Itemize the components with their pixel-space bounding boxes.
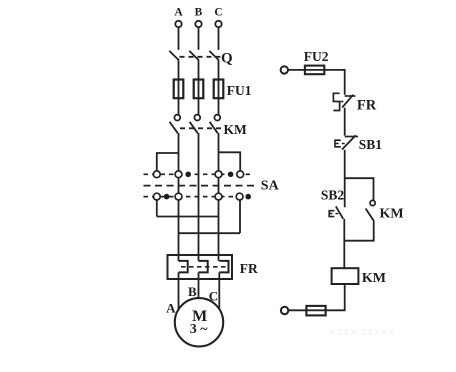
svg-text:xxxx: xxxx	[329, 324, 357, 338]
KM aux contact blade	[366, 209, 374, 222]
contactor KM pole 1 fixed contact	[174, 115, 180, 121]
svg-text:FR: FR	[240, 261, 258, 276]
wire phase B top	[198, 27, 200, 50]
control terminal bottom	[281, 307, 288, 314]
svg-text:FR: FR	[357, 98, 377, 114]
wire phase C mid	[218, 60, 220, 114]
svg-text:B: B	[188, 284, 197, 299]
wire SA out C to FR	[218, 200, 220, 261]
contactor KM pole 1 blade	[170, 122, 178, 133]
contactor KM pole 2 blade	[190, 122, 198, 133]
switch SA contact top 1	[153, 171, 160, 178]
FR contact thermal glyph	[333, 93, 339, 110]
button SB1 blade	[342, 135, 356, 149]
coil KM box	[332, 268, 359, 284]
switch SA pole link A	[178, 174, 180, 196]
thermal relay FR linkage	[181, 266, 228, 268]
svg-text:C: C	[209, 289, 218, 304]
wire FR to SB1	[344, 108, 346, 136]
wire phase B mid	[198, 60, 200, 114]
svg-text:FU2: FU2	[304, 49, 329, 64]
contactor KM pole 3 fixed contact	[214, 115, 220, 121]
switch SA dot top 2	[228, 172, 234, 178]
contactor KM linkage	[180, 127, 222, 129]
fuse FU1 pole 2	[194, 80, 204, 99]
switch SA contact bottom 3	[215, 193, 222, 200]
contactor KM pole 2 fixed contact	[194, 115, 200, 121]
switch SA dot bottom 2	[245, 194, 251, 200]
wire phase C top	[218, 27, 220, 50]
wire crossover H2	[179, 232, 241, 234]
motor M circle	[175, 298, 223, 346]
switch Q pole 3 blade	[209, 51, 219, 61]
button SB2 link dash	[335, 213, 338, 215]
FR contact blade	[342, 95, 353, 108]
svg-text:SA: SA	[261, 179, 280, 194]
button SB1 link dash	[342, 143, 345, 145]
thermal relay FR heater 3	[219, 261, 228, 273]
svg-text:C: C	[214, 6, 222, 18]
thermal relay FR heater 2	[199, 261, 208, 273]
button SB1 fixed tick	[345, 136, 358, 138]
switch SA contact top 3	[215, 171, 222, 178]
svg-text:Q: Q	[221, 50, 233, 66]
switch SA dot top 1	[185, 172, 191, 178]
switch SA contact bottom 1	[153, 193, 160, 200]
wire branch top	[345, 178, 374, 200]
FR contact link dash	[341, 101, 344, 103]
wire SA out A to FR	[178, 200, 180, 261]
wire FR to motor C	[218, 272, 220, 310]
wire SA right jog	[219, 152, 241, 171]
switch SA contact bottom 2	[175, 193, 182, 200]
thermal relay FR heater 1	[179, 261, 188, 273]
fuse bottom	[306, 306, 325, 316]
svg-text:SB2: SB2	[321, 188, 345, 203]
fuse FU1 pole 3	[214, 80, 224, 99]
terminal A	[175, 21, 181, 27]
svg-text:A: A	[166, 301, 176, 316]
thermal relay FR box	[168, 255, 233, 279]
svg-text:KM: KM	[380, 207, 404, 222]
wire phase A mid	[178, 60, 180, 114]
button SB1 cap	[335, 140, 341, 147]
wire SB1 to SB2	[344, 150, 346, 208]
KM aux contact fixed	[370, 200, 375, 205]
fuse FU1 pole 1	[174, 80, 184, 99]
FR contact fixed tick	[345, 95, 356, 97]
switch SA contact bottom 4	[236, 193, 243, 200]
button SB2 blade	[336, 206, 343, 218]
switch SA pole link C	[218, 174, 220, 196]
svg-text:FU1: FU1	[227, 83, 252, 98]
terminal B	[195, 21, 201, 27]
wire phase A below KM	[178, 133, 180, 171]
wire SB2 to coil	[343, 219, 345, 268]
wire crossover H1	[157, 216, 219, 218]
control terminal top	[281, 66, 288, 73]
svg-text:A: A	[174, 6, 183, 18]
fuse FU2	[305, 66, 324, 75]
wire control top	[288, 70, 345, 95]
wire SA left jog	[157, 153, 179, 171]
wire phase A top	[178, 27, 180, 50]
wire SA out left drop	[156, 200, 158, 217]
svg-text:KM: KM	[362, 271, 386, 286]
switch Q linkage	[180, 56, 221, 58]
switch SA dot bottom 1	[164, 194, 170, 200]
wire phase C below KM	[218, 133, 220, 171]
svg-text:SB1: SB1	[359, 137, 383, 152]
button SB2 cap	[329, 211, 334, 217]
svg-text:3 ~: 3 ~	[190, 322, 209, 337]
switch Q pole 2 blade	[189, 51, 199, 61]
wire phase B through SA	[198, 133, 200, 261]
wire SA out right drop	[239, 200, 241, 233]
svg-text:KM: KM	[224, 122, 248, 137]
switch Q pole 1 blade	[169, 51, 179, 61]
switch SA contact top 2	[175, 171, 182, 178]
wire coil to bottom	[289, 284, 345, 310]
switch SA middle linkage	[144, 185, 257, 187]
switch SA contact top 4	[237, 171, 244, 178]
switch SA bottom row track	[144, 196, 252, 198]
wire FR to motor B	[198, 272, 200, 299]
wire KM aux drop	[344, 221, 373, 240]
contactor KM pole 3 blade	[210, 122, 218, 133]
switch SA top row track	[144, 173, 252, 175]
wire FR to motor A	[178, 272, 180, 310]
terminal C	[215, 21, 221, 27]
svg-text:xxxxx: xxxxx	[360, 324, 395, 338]
svg-text:B: B	[195, 6, 203, 18]
